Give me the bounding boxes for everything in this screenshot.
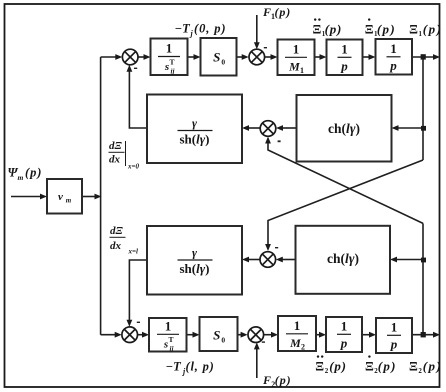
wire 1/sT to S0 (bottom) (187, 334, 197, 336)
wire trunk top to summer S1 (101, 56, 118, 58)
junction dot tee ch2 (421, 258, 426, 263)
svg-text:ij: ij (170, 345, 174, 353)
svg-text:0: 0 (221, 336, 225, 345)
svg-text:T: T (169, 58, 174, 67)
sign minus at S1 (134, 68, 137, 69)
arrow into S5 top (127, 320, 133, 327)
wire S0 to summer S6 (bottom) (238, 334, 245, 336)
label Xi2d(p) (365, 355, 397, 375)
arrow into S0 top (194, 54, 201, 60)
label dXi/dx at x=0 (109, 140, 140, 171)
svg-text:dx: dx (109, 154, 121, 166)
wire 1/M1 to 1/p (315, 56, 324, 58)
block S0 bottom (200, 317, 238, 351)
wire 1/p to output Xi1 (412, 56, 437, 58)
block 1/p bottom a (326, 317, 362, 352)
label -Tj(0,p) (175, 22, 227, 39)
svg-text:p: p (389, 58, 397, 73)
wire S1 to block 1/sT (top) (138, 56, 148, 58)
svg-text:−T: −T (166, 360, 183, 374)
wire diagonal A bottom junction to summer S3 (268, 141, 423, 223)
arrow into ch1 right (392, 125, 399, 131)
label Xi1d(p) (365, 18, 396, 38)
svg-text:ν: ν (58, 191, 63, 203)
svg-text:(p): (p) (275, 5, 292, 19)
svg-text:Ξ: Ξ (365, 21, 374, 36)
svg-text:1: 1 (341, 319, 348, 334)
svg-text:1: 1 (294, 318, 301, 333)
svg-text:γ: γ (192, 246, 197, 260)
label dXi/dx at x=l (110, 225, 138, 256)
sign minus at S2 (264, 47, 267, 48)
wire gamma/sh1 to S1 bottom (129, 70, 147, 129)
wire trunk vertical from nu_m split (100, 57, 102, 335)
wire S0 to summer S2 (237, 56, 246, 58)
arrow into 1/M2 (271, 332, 278, 338)
svg-text:Ξ: Ξ (365, 358, 374, 373)
svg-text:p: p (390, 337, 398, 352)
label Xi1dd(p) (313, 18, 343, 38)
wire tee into ch1 right (397, 127, 424, 129)
label Xi2(p) (409, 358, 442, 375)
svg-text:1: 1 (341, 42, 348, 57)
arrow into S0 bottom row (193, 332, 200, 338)
junction dot Xi2 (421, 332, 426, 337)
sign minus at S3 (278, 140, 281, 142)
wire S5 to 1/sT (bottom) (138, 334, 146, 336)
svg-text:(p): (p) (325, 21, 343, 36)
block ch2 (296, 226, 391, 294)
svg-text:M: M (289, 336, 301, 350)
svg-text:(p): (p) (423, 358, 443, 373)
wire S3 to gamma/sh1 (247, 127, 260, 129)
arrow into S2 left (242, 54, 249, 60)
wire 1/M2 to 1/p (bottom) (316, 334, 323, 336)
arrow into S3 bottom (diagonal A) (265, 137, 271, 144)
arrow into 1/p b bottom (369, 332, 376, 338)
arrow into gamma/sh2 right (242, 257, 249, 263)
wire F1 input arrow (256, 15, 258, 46)
label Psi_m(p) (8, 166, 43, 183)
wire ch1 output to summer S3 (281, 127, 297, 129)
summer S1 (122, 49, 138, 65)
svg-text:m: m (66, 197, 72, 205)
arrow into S6 left (241, 332, 248, 338)
block 1/sT bottom (149, 318, 187, 353)
wire 1/p to output Xi2 (412, 334, 437, 336)
svg-text:1: 1 (390, 41, 397, 56)
wire input psi_m (11, 196, 44, 198)
block S0 top (201, 38, 237, 76)
svg-text:(p): (p) (25, 166, 42, 180)
summer S2 (249, 49, 265, 65)
svg-text:Ξ: Ξ (313, 21, 322, 36)
wire 1/sT to S0 (top) (188, 56, 198, 58)
block 1/M1 (278, 40, 315, 76)
svg-text:2: 2 (325, 367, 329, 375)
svg-text:1: 1 (165, 319, 172, 334)
arrow F1 into S2 top (254, 42, 260, 49)
block nu_m (47, 179, 82, 214)
svg-text:1: 1 (300, 66, 304, 75)
svg-text:s: s (164, 61, 169, 73)
svg-text:sh(lγ): sh(lγ) (179, 261, 209, 276)
wire 1/p to 1/p (top) (363, 56, 373, 58)
svg-text:m: m (18, 173, 24, 182)
arrowheads (40, 42, 440, 349)
block gamma/sh1 (147, 95, 242, 164)
block 1/p top b (376, 39, 413, 75)
wire S4 to gamma/sh2 (247, 259, 260, 261)
arrow output Xi1 at frame (433, 54, 440, 60)
wire gamma/sh2 to S5 top (129, 260, 147, 322)
svg-text:ch(lγ): ch(lγ) (327, 251, 359, 266)
wire trunk bottom to summer S5 (101, 334, 118, 336)
svg-text:x=l: x=l (128, 248, 138, 256)
svg-text:(p): (p) (329, 358, 347, 373)
svg-text:(p): (p) (378, 358, 397, 373)
svg-text:Ξ: Ξ (409, 21, 418, 36)
arrow into S1 left (115, 54, 122, 60)
block gamma/sh2 (147, 226, 242, 295)
wire diagonal B top junction to summer S4 (268, 160, 423, 248)
label F2(p) (262, 373, 292, 389)
wire nu_m output to trunk (82, 196, 98, 198)
label F1(p) (262, 5, 291, 21)
arrow into 1/p a bottom (319, 332, 326, 338)
label -Tj(l,p) (166, 360, 215, 377)
wire Xi2 feedback vertical (422, 223, 424, 334)
block 1/p bottom b (376, 318, 412, 353)
wire Xi1 feedback vertical (422, 57, 424, 160)
svg-text:sh(lγ): sh(lγ) (179, 132, 209, 147)
svg-text:2: 2 (301, 343, 305, 352)
wire F2 input arrow (256, 346, 258, 378)
arrow into S5 left (115, 332, 122, 338)
svg-text:dx: dx (110, 240, 122, 252)
arrow nu_m out into trunk (95, 194, 102, 200)
svg-text:(0, p): (0, p) (194, 22, 226, 36)
svg-text:(l, p): (l, p) (186, 360, 215, 374)
arrow into gamma/sh1 right (242, 125, 249, 131)
summer S6 (248, 327, 264, 343)
svg-text:1: 1 (293, 42, 300, 57)
block 1/M2 (278, 316, 316, 352)
block 1/sT top (151, 39, 188, 76)
summer S4 (260, 252, 276, 268)
svg-text:dΞ: dΞ (109, 140, 123, 152)
arrow into S1 bottom (from gamma/sh1) (127, 65, 133, 72)
arrow into 1/sT top (144, 54, 151, 60)
wire S2 to 1/M1 (265, 56, 275, 58)
block 1/p top a (327, 40, 363, 76)
svg-text:γ: γ (192, 116, 197, 130)
sign minus at S4 (275, 247, 278, 248)
svg-text:p: p (340, 336, 348, 351)
summer S3 (260, 121, 276, 137)
svg-text:T: T (168, 335, 173, 344)
summer S5 (122, 327, 138, 343)
wire ch2 output to summer S4 (281, 259, 296, 261)
wire 1/p to 1/p (bottom) (362, 334, 373, 336)
wire S6 to 1/M2 (264, 334, 275, 336)
svg-text:ij: ij (171, 68, 175, 76)
svg-text:p: p (340, 59, 348, 74)
svg-text:(p): (p) (423, 21, 443, 36)
svg-text:M: M (288, 60, 300, 74)
arrow into nu_m (40, 194, 47, 200)
wire tee into ch2 right (395, 259, 423, 261)
junction dot Xi1 (421, 54, 426, 59)
arrow into 1/p b top (369, 54, 376, 60)
label Xi2dd(p) (315, 355, 346, 375)
svg-text:−T: −T (175, 22, 192, 36)
svg-text:x=0: x=0 (127, 163, 139, 171)
svg-text:ch(lγ): ch(lγ) (328, 121, 360, 136)
svg-text:1: 1 (166, 41, 173, 56)
svg-text:(p): (p) (377, 21, 396, 36)
label Xi1(p) (409, 21, 442, 38)
arrow into 1/M1 (271, 54, 278, 60)
arrow into S3 right (276, 125, 283, 131)
sign minus at S5 (137, 322, 140, 323)
svg-text:(p): (p) (275, 373, 292, 387)
arrow into S4 top (diagonal B) (265, 244, 271, 251)
junction dot tee ch1 (421, 126, 426, 131)
sign minus at S6 (262, 341, 265, 342)
svg-text:s: s (163, 339, 168, 351)
arrow into S4 right (276, 257, 283, 263)
svg-text:1: 1 (391, 320, 398, 335)
svg-text:Ξ: Ξ (409, 358, 418, 373)
arrow into ch2 right (390, 257, 397, 263)
svg-text:S: S (213, 50, 220, 65)
block ch1 (297, 95, 392, 162)
svg-text:F: F (262, 5, 271, 19)
svg-text:Ξ: Ξ (315, 358, 324, 373)
arrow output Xi2 at frame (433, 332, 440, 338)
svg-text:0: 0 (221, 58, 225, 67)
arrow into 1/p a top (320, 54, 327, 60)
arrow F2 into S6 bottom (254, 342, 260, 349)
arrow into 1/sT bottom row (142, 332, 149, 338)
svg-text:F: F (262, 373, 271, 387)
svg-text:S: S (213, 328, 220, 343)
svg-text:dΞ: dΞ (110, 225, 124, 237)
